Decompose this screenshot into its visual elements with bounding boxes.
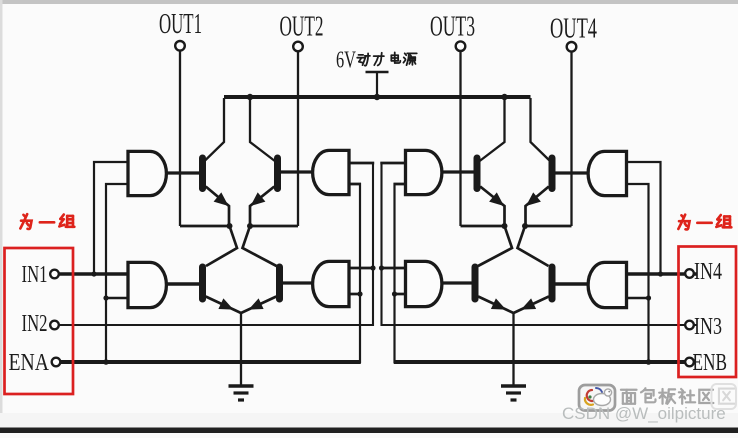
svg-text:ENB: ENB (693, 350, 728, 376)
svg-text:OUT4: OUT4 (550, 13, 597, 45)
svg-text:OUT3: OUT3 (430, 11, 475, 43)
svg-text:OUT1: OUT1 (159, 8, 202, 40)
svg-text:IN4: IN4 (694, 259, 722, 285)
svg-text:OUT2: OUT2 (280, 11, 324, 43)
svg-text:6V: 6V (336, 48, 356, 74)
svg-text:CSDN @W_oilpicture: CSDN @W_oilpicture (562, 404, 726, 423)
svg-text:IN3: IN3 (694, 314, 722, 340)
svg-text:IN1: IN1 (22, 262, 48, 288)
svg-text:IN2: IN2 (22, 311, 48, 337)
svg-text:ENA: ENA (9, 350, 50, 376)
